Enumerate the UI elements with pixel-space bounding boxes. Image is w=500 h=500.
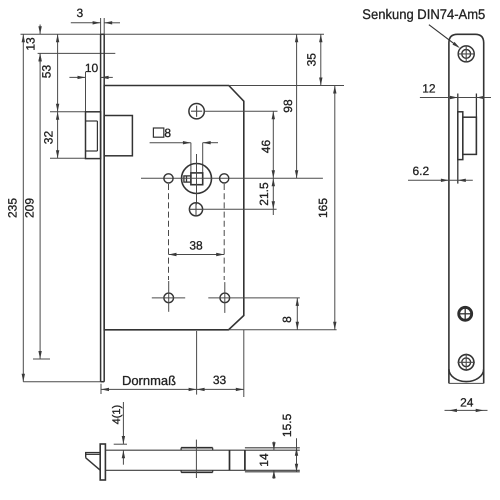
- svg-text:15.5: 15.5: [280, 413, 294, 437]
- svg-text:235: 235: [6, 198, 20, 218]
- svg-text:32: 32: [42, 131, 56, 145]
- svg-text:14: 14: [257, 453, 271, 467]
- svg-text:165: 165: [316, 198, 330, 218]
- svg-text:46: 46: [259, 140, 273, 154]
- svg-text:13: 13: [24, 37, 38, 51]
- svg-text:38: 38: [189, 239, 203, 253]
- svg-text:8: 8: [280, 316, 294, 323]
- svg-text:Senkung DIN74-Am5: Senkung DIN74-Am5: [362, 6, 485, 22]
- svg-text:6.2: 6.2: [412, 164, 429, 178]
- svg-text:Dornmaß: Dornmaß: [122, 373, 176, 388]
- svg-text:24: 24: [460, 396, 474, 410]
- svg-text:209: 209: [23, 198, 37, 218]
- svg-text:98: 98: [281, 99, 295, 113]
- svg-text:10: 10: [85, 61, 99, 75]
- svg-text:4(1): 4(1): [111, 405, 123, 425]
- svg-text:8: 8: [164, 126, 171, 140]
- svg-text:53: 53: [40, 65, 54, 79]
- svg-text:33: 33: [213, 373, 227, 387]
- svg-text:35: 35: [304, 53, 318, 67]
- svg-text:21.5: 21.5: [257, 182, 271, 206]
- svg-text:3: 3: [76, 6, 83, 20]
- svg-text:12: 12: [422, 82, 436, 96]
